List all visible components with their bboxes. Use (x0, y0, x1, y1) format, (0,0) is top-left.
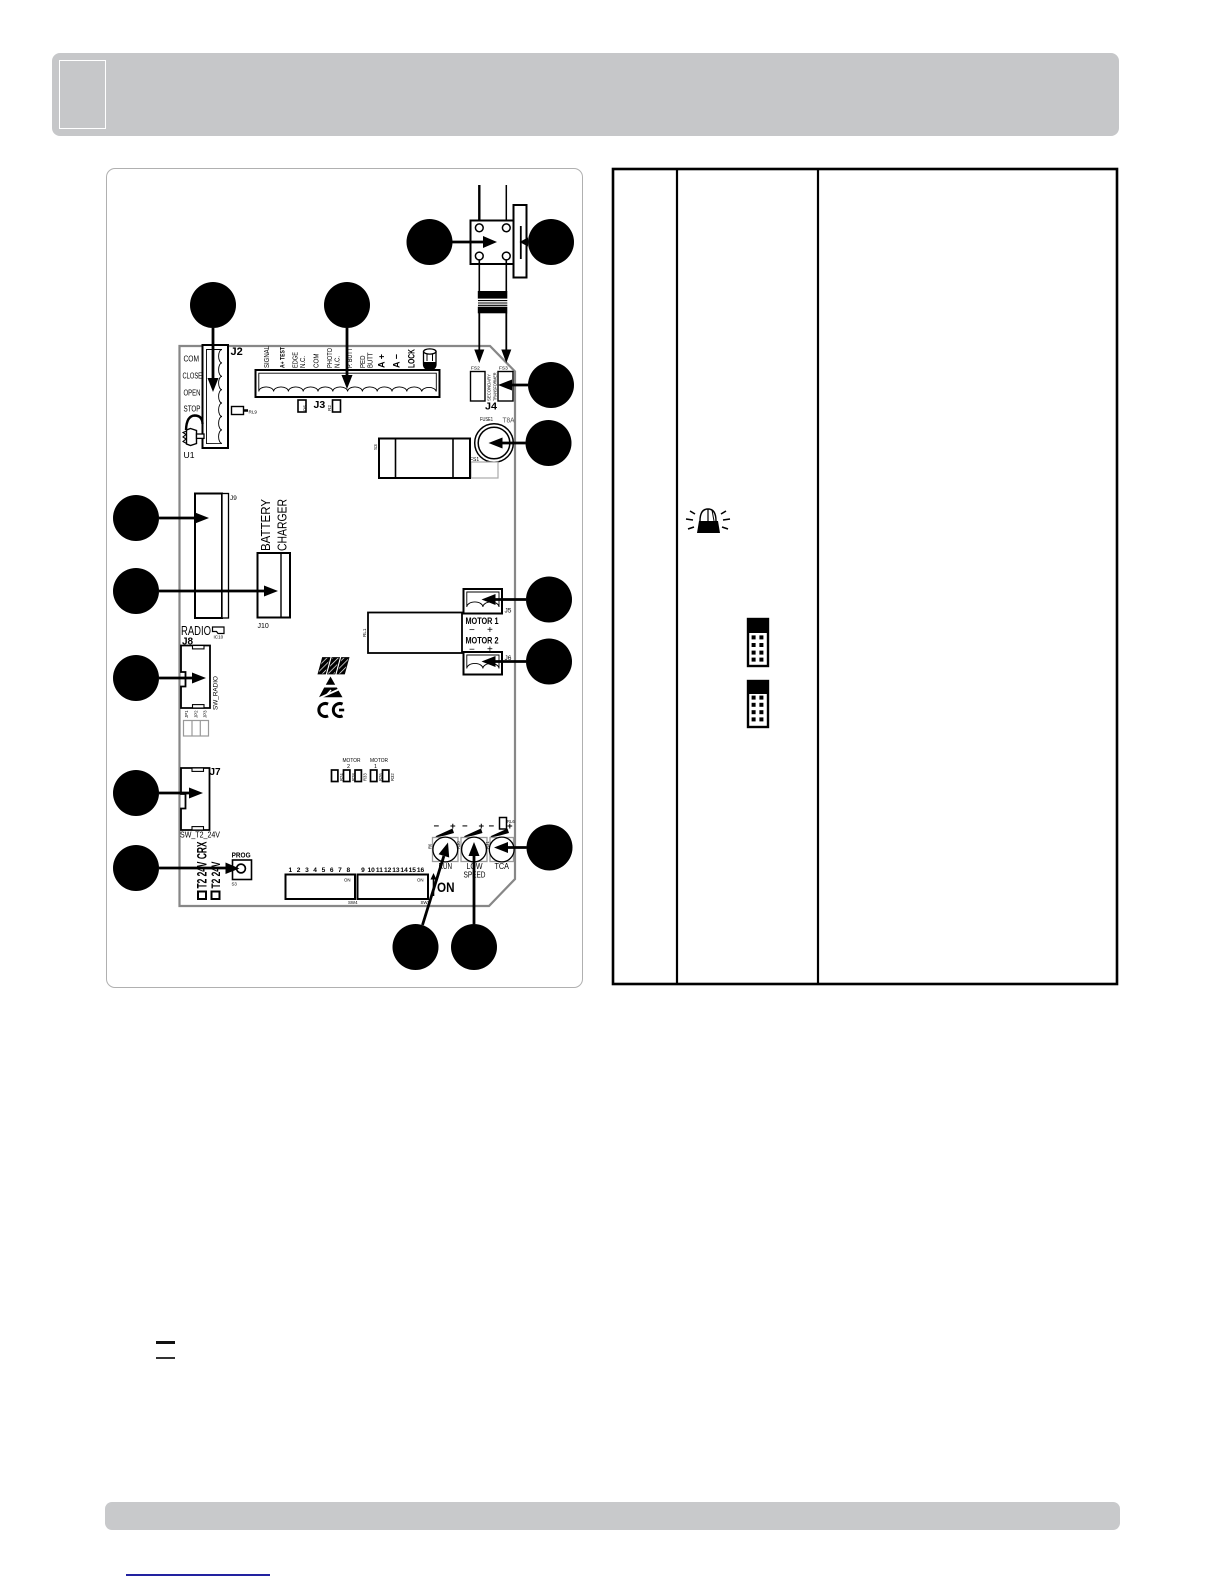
svg-text:ON: ON (437, 879, 455, 895)
svg-text:1: 1 (288, 867, 292, 874)
connector J7 (181, 768, 210, 830)
label SECONDARY TRANSFORMER (487, 372, 499, 401)
label COM (J3) (312, 354, 321, 369)
label T8A (503, 416, 515, 425)
label J9 (230, 495, 237, 502)
label MOTOR 2 (466, 636, 499, 647)
callout circle 4 (324, 282, 370, 328)
svg-text:A +: A + (376, 354, 387, 368)
svg-text:OPEN: OPEN (184, 389, 201, 398)
svg-text:JP3: JP3 (203, 710, 208, 718)
label PROG (232, 851, 251, 860)
connector icon 1 (748, 619, 768, 666)
svg-text:J2: J2 (231, 346, 243, 358)
pin hole top-right (502, 224, 510, 232)
callout circle 15 (393, 924, 439, 970)
trimmer RUN (433, 837, 459, 862)
callout circle 6 (526, 420, 572, 466)
flashing lamp icon (686, 509, 730, 533)
wire mains left (478, 185, 480, 227)
arrow callout2 to fuse holder (520, 238, 529, 247)
label A + (376, 354, 387, 368)
svg-text:J5: J5 (505, 608, 512, 615)
label T2 24V CRX (195, 842, 210, 889)
arrow callout7 to J9 (159, 513, 209, 524)
svg-text:T8A: T8A (503, 416, 515, 425)
ON arrow (431, 873, 437, 896)
label SW_RADIO (213, 676, 220, 710)
label CHARGER (275, 499, 290, 551)
bottom gray bar (105, 1502, 1120, 1530)
arrow callout1 to terminal block (452, 236, 497, 248)
ic IC10 (213, 627, 225, 640)
svg-text:COM: COM (184, 355, 200, 364)
resistor R33 (355, 770, 368, 782)
svg-text:BATTERY: BATTERY (258, 499, 273, 551)
svg-text:ON: ON (344, 878, 351, 883)
connector J5 (464, 589, 503, 614)
svg-text:SIGNAL: SIGNAL (262, 346, 271, 368)
trimmer TCA minus-plus (489, 821, 514, 837)
label FS3 (499, 366, 508, 372)
svg-text:SW_T2_24V: SW_T2_24V (180, 830, 220, 840)
svg-text:15: 15 (409, 867, 417, 874)
svg-text:T2 24V: T2 24V (211, 861, 223, 888)
buzzer cylinder (424, 349, 437, 370)
svg-text:N.C.: N.C. (298, 356, 307, 368)
manufacturer logo (318, 658, 349, 675)
label RL1 (362, 628, 367, 637)
callout circle 10 (526, 577, 572, 623)
label J2 (231, 346, 243, 358)
board outline (180, 346, 516, 906)
trimmer TCA (489, 837, 514, 862)
svg-text:SW_RADIO: SW_RADIO (213, 676, 220, 710)
label MOTOR 1 (466, 616, 499, 627)
label COM (184, 355, 200, 364)
svg-text:RL1: RL1 (362, 628, 367, 637)
label J10 (258, 623, 269, 630)
footer blue line (126, 1574, 270, 1576)
svg-text:A+ TEST: A+ TEST (280, 347, 287, 368)
svg-text:9: 9 (361, 867, 365, 874)
svg-text:2: 2 (347, 764, 350, 770)
label PHOTO N.C. (325, 348, 342, 368)
relay RL1 (368, 613, 462, 654)
label CLOSE (183, 372, 203, 381)
table column divider 1 (676, 169, 678, 984)
label LOCK (406, 349, 417, 368)
label LOW SPEED (464, 861, 486, 880)
ESD warning symbol (319, 677, 343, 699)
trimmer LOW SPEED (461, 837, 487, 862)
wire down-left from terminal (478, 260, 480, 292)
svg-text:R2: R2 (327, 405, 332, 411)
resistor R2 (327, 400, 341, 412)
svg-text:R31: R31 (485, 841, 490, 849)
label TCA (495, 861, 510, 871)
svg-text:MOTOR: MOTOR (370, 758, 388, 764)
dip switch SW2 (358, 875, 431, 906)
label PED BUTT (358, 352, 375, 368)
svg-text:IC10: IC10 (214, 635, 224, 640)
svg-text:FUSE1: FUSE1 (480, 417, 493, 423)
relay RL6 (500, 818, 516, 830)
jumper block (184, 721, 209, 737)
svg-text:BUTT: BUTT (366, 352, 375, 368)
label OPEN (184, 389, 201, 398)
pad under fuse (471, 462, 498, 478)
svg-text:R6: R6 (428, 843, 433, 849)
fuse FUSE1 (475, 424, 514, 463)
label J3 (314, 399, 326, 411)
pin hole top-left (475, 224, 483, 232)
label FS1 (470, 457, 479, 463)
svg-text:D5: D5 (303, 405, 308, 411)
label MOTOR 1 (trimmers) (370, 758, 388, 770)
svg-text:SW4: SW4 (348, 900, 358, 905)
arrow callout4 to J3 (342, 328, 353, 389)
fuse FS3 (498, 372, 513, 402)
cable sheath band 2 (478, 307, 508, 314)
callout circle 3 (190, 282, 236, 328)
wire mains right (505, 185, 507, 227)
svg-text:T2 24V CRX: T2 24V CRX (195, 842, 210, 889)
header small square (59, 60, 106, 129)
secondary wire left with arrow to FS2 (474, 313, 484, 363)
label FS2 (471, 366, 480, 372)
callout circle 13 (113, 845, 159, 891)
label BATTERY (258, 499, 273, 551)
pin hole bottom-left (475, 252, 483, 260)
svg-text:16: 16 (417, 867, 425, 874)
svg-text:COM: COM (312, 354, 321, 369)
svg-text:PROG: PROG (232, 851, 251, 860)
CE mark (319, 704, 344, 717)
dip numbers 9-16 (361, 867, 424, 874)
svg-text:N.C.: N.C. (333, 356, 342, 368)
fuse FS2 (471, 372, 486, 402)
callout circle 12 (113, 770, 159, 816)
callout circle 5 (528, 362, 574, 408)
callout circle 8 (113, 568, 159, 614)
wire down-right from terminal (505, 260, 507, 292)
svg-text:TRANSFORMER: TRANSFORMER (493, 372, 499, 401)
checkbox T2 24V CRX (198, 892, 206, 900)
connector icon 2 (748, 681, 768, 727)
callout circle 9 (113, 655, 159, 701)
svg-text:13: 13 (392, 867, 400, 874)
dash thick (156, 1341, 175, 1344)
svg-text:14: 14 (400, 867, 408, 874)
connector J10 (258, 553, 291, 618)
svg-text:2: 2 (297, 867, 301, 874)
motor2 polarity (469, 645, 493, 656)
resistor R32 (383, 770, 396, 782)
svg-text:R33: R33 (363, 773, 368, 781)
svg-text:−: − (469, 625, 475, 636)
svg-text:12: 12 (384, 867, 392, 874)
dip numbers 1-8 (288, 867, 350, 874)
label J8 (182, 637, 194, 648)
arrow callout9 to J8 (159, 673, 206, 684)
svg-text:RL9: RL9 (249, 410, 258, 415)
svg-text:RL6: RL6 (507, 819, 515, 824)
label P BUTT (behind arrow) (345, 348, 354, 368)
svg-text:7: 7 (338, 867, 342, 874)
label R30 (456, 841, 461, 849)
label A - (391, 354, 402, 368)
svg-text:6: 6 (330, 867, 334, 874)
arrow callout10 to J5 (482, 594, 527, 605)
svg-text:−: − (489, 821, 495, 832)
svg-text:J7: J7 (210, 767, 222, 778)
svg-text:A −: A − (391, 354, 402, 368)
label ON (437, 879, 455, 895)
label U1 (184, 450, 195, 460)
label A+ TEST (280, 347, 287, 368)
table column divider 2 (817, 169, 819, 984)
arrow callout12 to J7 (159, 788, 203, 799)
connector J8 (181, 646, 210, 709)
button PROG (232, 860, 252, 887)
svg-text:LOCK: LOCK (406, 349, 417, 368)
label J6 (505, 655, 512, 662)
svg-text:SECONDARY: SECONDARY (487, 373, 493, 401)
label MOTOR 2 (trimmers) (343, 758, 361, 770)
table outer border (613, 169, 1117, 984)
resistor R26 (371, 770, 384, 782)
arrow callout5 to J4 (498, 380, 528, 391)
svg-text:J9: J9 (230, 495, 237, 502)
label J5 (505, 608, 512, 615)
fuse holder bar (514, 205, 527, 278)
arrow callout6 to FUSE1 (489, 438, 526, 449)
arrow callout3 to J2 (208, 328, 219, 392)
label RADIO (181, 624, 211, 638)
diagram panel frame (106, 168, 583, 988)
label RUN (439, 861, 453, 871)
callout circle 7 (113, 495, 159, 541)
label EDGE N.C. (291, 352, 308, 368)
svg-text:CHARGER: CHARGER (275, 499, 290, 551)
svg-text:S3: S3 (232, 882, 238, 887)
svg-text:8: 8 (346, 867, 350, 874)
svg-text:JP2: JP2 (194, 710, 199, 718)
arrow callout15 to RUN (423, 843, 450, 926)
svg-text:JP1: JP1 (184, 710, 189, 718)
label SIGNAL (262, 346, 271, 368)
svg-text:U1: U1 (184, 450, 195, 460)
checkbox T2 24V (212, 892, 220, 900)
resistor RL9 (232, 407, 258, 415)
resistor R28 (344, 770, 357, 782)
svg-text:S3: S3 (373, 444, 378, 450)
label J4 (485, 402, 498, 413)
trimmer LOW SPEED minus-plus (462, 821, 485, 837)
svg-text:MOTOR: MOTOR (343, 758, 361, 764)
svg-text:ON: ON (417, 878, 424, 883)
svg-text:STOP: STOP (184, 405, 201, 414)
svg-text:3: 3 (305, 867, 309, 874)
svg-text:11: 11 (376, 867, 383, 874)
arrow callout14 to TCA (494, 842, 527, 853)
svg-text:FS3: FS3 (499, 366, 508, 372)
callout circle 11 (526, 639, 572, 685)
svg-text:J10: J10 (258, 623, 269, 630)
connector J6 (464, 652, 503, 675)
cable sheath band 1 (478, 291, 508, 299)
header gray bar (52, 53, 1119, 136)
callout circle 14 (527, 825, 573, 871)
callout circle 1 (407, 219, 453, 265)
svg-text:1: 1 (374, 764, 377, 770)
cable sheath thin lines (478, 301, 507, 306)
svg-text:+: + (487, 625, 493, 636)
plug U1 (183, 416, 204, 446)
svg-text:CLOSE: CLOSE (183, 372, 203, 381)
callout circle 2 (528, 219, 574, 265)
diode D5 (298, 400, 308, 412)
arrow callout8 to J10 (159, 586, 278, 597)
svg-text:−: − (434, 821, 440, 832)
arrow callout13 to PROG (159, 863, 240, 875)
svg-text:R30: R30 (456, 841, 461, 849)
svg-text:R32: R32 (390, 773, 395, 781)
svg-text:4: 4 (313, 867, 317, 874)
label R6 (428, 843, 433, 849)
label FUSE1 (480, 417, 493, 423)
label SW_T2_24V (180, 830, 220, 840)
label J7 (210, 767, 222, 778)
secondary wire right with arrow to FS3 (501, 313, 511, 363)
label S3 (relay) (373, 444, 378, 450)
labels JP1 JP2 JP3 (184, 710, 208, 718)
label T2 24V (211, 861, 223, 888)
svg-text:10: 10 (368, 867, 376, 874)
svg-text:TCA: TCA (495, 861, 510, 871)
connector J2 (203, 345, 229, 448)
relay K1 (379, 439, 470, 479)
dash thin (156, 1357, 175, 1359)
arrow callout16 to LOW SPEED (469, 842, 480, 924)
svg-text:J3: J3 (314, 399, 326, 411)
resistor R24 (332, 770, 345, 782)
trimmer RUN minus-plus (434, 821, 457, 837)
pin hole bottom-right (502, 252, 510, 260)
dip switch SW4 (286, 875, 359, 906)
svg-text:J4: J4 (485, 402, 498, 413)
label STOP (184, 405, 201, 414)
callout circle 16 (451, 924, 497, 970)
terminal block TS1 (471, 221, 514, 265)
svg-text:5: 5 (322, 867, 326, 874)
svg-text:−: − (462, 821, 468, 832)
label R31 (485, 841, 490, 849)
arrow callout11 to J6 (482, 656, 527, 667)
motor1 polarity (469, 625, 493, 636)
connector J9 (195, 494, 229, 619)
connector J3 strip (256, 370, 440, 397)
svg-text:FS2: FS2 (471, 366, 480, 372)
